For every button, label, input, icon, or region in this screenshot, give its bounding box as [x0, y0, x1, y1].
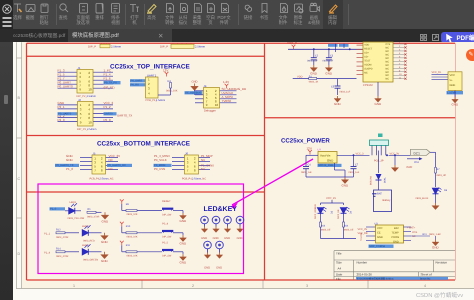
ground (LED2) — [101, 233, 109, 240]
label SOP_TP4056 (selected, U3) — [369, 245, 394, 248]
resistor R14 0603_UE — [343, 222, 354, 232]
svg-text:2014-05-26: 2014-05-26 — [357, 273, 373, 277]
svg-text:C2: C2 — [315, 55, 319, 58]
svg-text:0603_1uF: 0603_1uF — [340, 91, 351, 94]
svg-text:P2_1: P2_1 — [58, 105, 65, 109]
wire LED cathode rail — [321, 232, 357, 239]
svg-text:2CA: 2CA — [414, 161, 419, 164]
resistor R11b 0603_1-8K — [411, 233, 441, 236]
svg-text:GND: GND — [224, 237, 230, 240]
wire VCC_D connector pins — [432, 74, 449, 79]
svg-text:P0_TX_P0: P0_TX_P0 — [104, 82, 117, 85]
svg-text:C5: C5 — [331, 86, 335, 89]
svg-text:D4: D4 — [350, 210, 353, 214]
svg-text:2.54mm: 2.54mm — [87, 128, 96, 131]
net labels J2 right (VCC_3..) — [104, 101, 133, 122]
net label P1_0 (selected) + LED1 label — [50, 201, 77, 211]
net labels J2 left (GND,P2_1..) — [58, 101, 78, 122]
LED1 yellow — [65, 203, 85, 220]
svg-text:Debugger: Debugger — [204, 110, 216, 113]
regulator U2 (Vout/Vin) — [306, 149, 370, 164]
net labels J5 left — [55, 154, 79, 171]
svg-text:GND: GND — [192, 81, 198, 84]
svg-text:VCC_3: VCC_3 — [287, 41, 297, 45]
svg-text:P2_0: P2_0 — [58, 118, 65, 122]
net labels U3 right (BAT+...) — [407, 227, 417, 239]
svg-text:B: B — [18, 96, 21, 100]
svg-text:PWR: PWR — [407, 166, 413, 169]
svg-text:0603_10K: 0603_10K — [166, 90, 178, 93]
svg-text:Battery: Battery — [383, 199, 392, 202]
svg-text:P1_6: P1_6 — [104, 77, 111, 81]
svg-text:GND: GND — [180, 260, 188, 264]
wire J1 left pins — [58, 72, 78, 88]
svg-text:GND: GND — [201, 237, 207, 240]
svg-text:C: C — [18, 177, 21, 181]
svg-text:Title: Title — [336, 252, 342, 256]
wire J5 left pins — [80, 158, 92, 170]
ground (LED1) — [101, 212, 109, 219]
ground (K2) — [213, 227, 220, 240]
label DIP_P2_2.54mm (J2) — [77, 128, 96, 131]
svg-text:NC: NC — [364, 71, 368, 74]
wire J6 left pins — [172, 158, 185, 170]
svg-text:P1_0: P1_0 — [50, 208, 57, 211]
svg-text:10: 10 — [88, 120, 92, 124]
svg-text:DIP_P: DIP_P — [160, 45, 168, 49]
ground (K4) — [237, 227, 244, 240]
svg-text:VCC: VCC — [377, 227, 383, 230]
svg-text:File: File — [336, 277, 341, 281]
svg-text:CC25xx_BOTTOM_INTERFACE: CC25xx_BOTTOM_INTERFACE — [97, 141, 190, 148]
net labels Debugger right — [222, 87, 248, 103]
LED2 red — [82, 225, 102, 242]
LED3 green — [82, 244, 102, 261]
svg-text:GND: GND — [342, 184, 350, 188]
wire Debugger left pins — [195, 91, 204, 103]
svg-text:P0_0: P0_0 — [104, 118, 111, 122]
net labels J5 right — [107, 154, 132, 171]
svg-text:UD+: UD+ — [364, 51, 369, 54]
ground (K3) — [224, 227, 231, 240]
connector fragment (cut at top of view) — [88, 44, 122, 48]
switch SW1 (power switch, teal) — [370, 134, 389, 156]
svg-text:P0_SCLK: P0_SCLK — [154, 158, 167, 162]
svg-text:0603_GREEN: 0603_GREEN — [83, 258, 98, 261]
svg-text:R10: R10 — [126, 225, 131, 228]
ground (U3) — [432, 236, 440, 250]
connector J5 — [92, 151, 106, 174]
svg-text:VCC_DL: VCC_DL — [432, 71, 442, 74]
svg-text:C7: C7 — [355, 164, 359, 167]
svg-text:R9: R9 — [126, 203, 130, 206]
resistor R11 + key S3 (P0_5) — [120, 241, 183, 258]
capacitor C7 0603_1uF — [345, 154, 360, 177]
svg-text:_NC: _NC — [200, 178, 206, 181]
svg-text:P0_CSN: P0_CSN — [154, 167, 165, 171]
svg-text:GND: GND — [101, 240, 109, 244]
svg-text:2: 2 — [192, 284, 194, 288]
svg-text:0603_470R: 0603_470R — [56, 255, 69, 258]
net label Debugger left (selected) — [185, 91, 203, 94]
ground (S3) — [180, 254, 187, 260]
svg-text:12V: 12V — [307, 146, 312, 150]
label DIP_P2_2.54mm (J1) — [77, 95, 96, 98]
net labels VCC_3V / VCC_DE — [358, 228, 368, 235]
svg-text:P0_UART0: P0_UART0 — [58, 113, 72, 116]
svg-text:DC1: DC1 — [414, 152, 421, 156]
svg-text:0603_1K: 0603_1K — [309, 80, 319, 83]
ground (D6) — [432, 203, 439, 210]
svg-text:0603_UE: 0603_UE — [344, 228, 354, 231]
svg-text:NC: NC — [201, 158, 205, 162]
wire U1 left pins — [357, 45, 364, 74]
svg-text:GND: GND — [452, 103, 460, 107]
ground (K1) — [201, 227, 208, 240]
wire J6 right pins — [198, 158, 210, 170]
section divider lines (red sheet partition) — [27, 43, 456, 280]
svg-text:P1_1: P1_1 — [44, 232, 51, 235]
net labels J6 left — [154, 154, 172, 171]
svg-text:GND: GND — [432, 246, 440, 250]
svg-text:0603_GREEN: 0603_GREEN — [314, 204, 317, 219]
svg-text:GND: GND — [180, 219, 188, 223]
key pad K6 — [216, 241, 224, 252]
svg-text:D: D — [18, 252, 21, 256]
wire J2 right pins — [93, 105, 113, 122]
svg-text:UART0: UART0 — [104, 113, 113, 116]
svg-text:LED1: LED1 — [70, 201, 77, 204]
svg-text:LED&KEY: LED&KEY — [204, 206, 238, 213]
svg-text:DIP_SW: DIP_SW — [162, 213, 172, 216]
svg-text:TEST: TEST — [364, 59, 371, 62]
svg-text:PCB_3P: PCB_3P — [374, 160, 384, 163]
svg-text:GND: GND — [101, 259, 109, 263]
label SOT23 (selected, U2) — [318, 164, 342, 167]
svg-text:P0_5: P0_5 — [162, 241, 169, 244]
net labels J1 left (P1_3..P0_UART) — [58, 69, 73, 89]
wire rail to R7 — [430, 151, 436, 153]
svg-text:PROG: PROG — [392, 236, 400, 239]
resistor R7 0603_UE — [435, 155, 447, 187]
wire U3 right pins — [404, 227, 412, 241]
net labels J1 right — [104, 69, 112, 81]
svg-text:0603_470R: 0603_470R — [87, 215, 100, 218]
net labels USB_D+/USB_D- (selected, cut at top) — [328, 44, 338, 47]
key pad K3 — [224, 216, 232, 226]
capacitor C5 0603_1uF — [331, 79, 351, 95]
svg-text:GND: GND — [216, 267, 222, 270]
svg-text:P1_2: P1_2 — [104, 105, 111, 109]
svg-text:0603_YELLOW: 0603_YELLOW — [68, 217, 85, 220]
connector J2 — [78, 98, 94, 126]
svg-text:1.2V: 1.2V — [223, 80, 229, 84]
svg-text:GND: GND — [334, 102, 342, 106]
svg-text:VCC_3: VCC_3 — [356, 152, 365, 155]
svg-text:0603_10K: 0603_10K — [127, 254, 138, 257]
svg-text:0603_RED: 0603_RED — [83, 239, 95, 242]
svg-text:GND: GND — [327, 159, 333, 163]
key pad K4 — [236, 216, 244, 226]
battery BT1 — [372, 190, 392, 212]
LED D6 (0603_BLUE) — [416, 188, 448, 204]
IC U3 TP4056 — [375, 222, 404, 243]
connector J1 — [77, 66, 93, 93]
svg-text:P0_UART: P0_UART — [131, 80, 143, 83]
svg-text:Number: Number — [357, 261, 368, 265]
svg-text:Sheet of: Sheet of — [421, 273, 432, 277]
svg-text:GND: GND — [450, 84, 456, 87]
net labels UART left (selected) — [130, 79, 146, 82]
wire VCC rail to U1 — [288, 48, 363, 50]
connector P2 (VCC/GND header) — [448, 72, 462, 91]
svg-text:RESET: RESET — [364, 47, 373, 50]
annotation box LED&KEY (magenta markup) — [38, 184, 244, 274]
title block — [334, 251, 455, 280]
svg-text:P1_6: P1_6 — [66, 167, 73, 171]
svg-text:GND: GND — [180, 241, 188, 245]
svg-text:RESET: RESET — [162, 200, 171, 203]
IC U1 CP2102 — [363, 42, 393, 82]
svg-text:CC25xx_TOP_INTERFACE: CC25xx_TOP_INTERFACE — [110, 64, 191, 71]
svg-text:0603_10K: 0603_10K — [127, 235, 138, 238]
resistor R10 + key S2 (P0_4) — [120, 222, 183, 239]
svg-text:SC_UDEBUG: SC_UDEBUG — [185, 92, 201, 95]
svg-text:SUSPD: SUSPD — [364, 67, 373, 70]
wire DC aux + label 2CA — [407, 157, 423, 164]
label PCB_P4_2.54mm_NC (J6) — [182, 178, 206, 181]
net labels J6 right — [201, 154, 214, 171]
connector J6 — [185, 151, 199, 174]
svg-text:B5819W: B5819W — [370, 175, 373, 185]
ground (P2) — [452, 91, 460, 107]
capacitor C2 0603_1uF — [307, 49, 319, 65]
ground (C3) — [325, 65, 332, 72]
capacitor C3 0603_1uF — [323, 49, 334, 65]
svg-text:0603_UE: 0603_UE — [321, 228, 331, 231]
svg-text:R14: R14 — [344, 225, 349, 228]
net label P1_4 + resistor R14b — [44, 248, 79, 258]
svg-text:2.54mm: 2.54mm — [111, 45, 122, 49]
resistor R9 + key S1 (RESET) — [120, 199, 183, 216]
svg-text:UD-: UD- — [364, 55, 368, 58]
svg-text:2.54mm: 2.54mm — [87, 95, 96, 98]
svg-text:GND: GND — [325, 72, 333, 76]
svg-text:3: 3 — [306, 284, 308, 288]
svg-text:0603_1uF: 0603_1uF — [301, 171, 312, 174]
svg-text:+ BAT+: + BAT+ — [407, 227, 416, 230]
wire J2 left pins — [58, 105, 78, 122]
wire U1 right pins (no-connects) — [393, 44, 405, 79]
power flag 1.2V (Debugger) — [225, 84, 229, 89]
svg-text:D3: D3 — [331, 210, 334, 214]
svg-text:1: 1 — [73, 284, 75, 288]
wire J5 right pins — [106, 158, 119, 170]
svg-text:C3: C3 — [330, 55, 334, 58]
svg-text:VCOM: VCOM — [364, 63, 371, 66]
svg-text:GND: GND — [204, 267, 210, 270]
label (selected) under P2 — [447, 91, 464, 94]
svg-text:P0_UART0: P0_UART0 — [58, 85, 73, 89]
svg-text:E:\CC2530\模块底板原理图.SchDoc: E:\CC2530\模块底板原理图.SchDoc — [357, 277, 394, 280]
svg-text:VCC: VCC — [450, 74, 456, 77]
ground (K5) — [204, 253, 211, 270]
connector J4 Debugger — [204, 84, 220, 108]
svg-text:GND: GND — [213, 237, 219, 240]
svg-text:R11: R11 — [423, 233, 428, 236]
port DC1 — [411, 149, 431, 155]
power flag VCC (UART) — [165, 72, 169, 77]
ground (regulator) — [335, 163, 350, 188]
wire J1 right pins — [93, 72, 113, 88]
svg-text:CE: CE — [377, 232, 381, 235]
ground (S2) — [180, 235, 187, 241]
svg-text:D5KL: D5KL — [384, 177, 387, 183]
LED D4 (0603_GREEN) — [314, 204, 334, 222]
svg-text:DIP_SW: DIP_SW — [162, 255, 172, 258]
ground (C2) — [310, 65, 317, 72]
capacitor C4 0603_1uF — [301, 155, 345, 177]
resistor R4 0603_10K — [158, 80, 178, 95]
wire USB data lines — [335, 44, 344, 52]
power flag VCC_3V (LED feed) — [321, 197, 344, 205]
net label VDD + resistor R1b — [293, 76, 357, 84]
svg-text:U?: U? — [318, 149, 322, 152]
svg-text:P0_4: P0_4 — [162, 222, 169, 225]
svg-text:0603_1-8K: 0603_1-8K — [429, 233, 441, 236]
svg-text:R11: R11 — [126, 244, 131, 247]
ground (S1) — [180, 213, 187, 219]
label PCB_P4_2.54mm_NC (J5) — [90, 178, 114, 181]
svg-text:Size: Size — [336, 261, 342, 265]
svg-text:SOT23_R111: SOT23_R111 — [318, 164, 334, 167]
svg-text:Vout Vin: Vout Vin — [320, 154, 331, 158]
svg-text:TCVCM: TCVCM — [360, 233, 363, 241]
svg-text:Drawn By:: Drawn By: — [420, 277, 431, 280]
svg-text:VCC_3V: VCC_3V — [326, 197, 336, 200]
resistor R1 0603_470R — [87, 208, 102, 218]
svg-text:VCC_3V: VCC_3V — [358, 228, 368, 231]
svg-text:Revision: Revision — [436, 261, 448, 265]
svg-text:VDD: VDD — [364, 43, 369, 46]
net label P1_1 + resistor R12 — [44, 229, 79, 239]
key pad K5 — [204, 241, 212, 252]
svg-text:2.54mm: 2.54mm — [195, 45, 206, 49]
svg-text:DIP_SW: DIP_SW — [162, 236, 172, 239]
svg-text:0603_470R: 0603_470R — [56, 236, 69, 239]
ground (LED3) — [101, 252, 109, 259]
net label P0_TX (selected) — [104, 81, 121, 84]
svg-text:+ BAT: + BAT — [375, 192, 382, 195]
svg-text:P0_RX: P0_RX — [131, 84, 139, 87]
power flag VCC_3 (CP2102) — [292, 45, 296, 50]
ground (UART pulldown) — [191, 81, 199, 95]
svg-text:NC: NC — [386, 78, 390, 81]
svg-text:(P0_P1): (P0_P1) — [104, 86, 115, 90]
svg-text:NC: NC — [412, 235, 416, 238]
wire main 3V rail — [356, 152, 411, 156]
svg-text:NC: NC — [201, 167, 205, 171]
svg-text:0603_UE: 0603_UE — [437, 174, 447, 177]
svg-text:5+: 5+ — [450, 79, 453, 82]
svg-text:R1: R1 — [88, 208, 92, 211]
pin numbers U1 right — [399, 42, 402, 80]
svg-text:GND: GND — [375, 102, 383, 106]
svg-text:R12: R12 — [56, 229, 61, 232]
svg-text:0603_BLUE: 0603_BLUE — [416, 197, 429, 200]
connector J3 UART — [146, 73, 159, 98]
svg-text:0603_1uF: 0603_1uF — [349, 171, 360, 174]
ground (DC input) — [391, 154, 398, 171]
svg-text:DIP_P: DIP_P — [88, 45, 96, 49]
ground (C5) — [334, 96, 341, 102]
svg-text:SOP_TP4056: SOP_TP4056 — [369, 245, 386, 248]
svg-text:GND: GND — [66, 158, 74, 162]
svg-text:A4: A4 — [338, 267, 342, 271]
wire U3 left pins — [366, 227, 376, 241]
ground (U1) — [375, 82, 383, 106]
svg-text:GND: GND — [393, 241, 399, 244]
svg-text:10: 10 — [88, 87, 92, 91]
wire Debugger right pins — [220, 91, 237, 103]
annotation arrow (magenta callout line) — [231, 159, 314, 209]
svg-text:C4: C4 — [308, 164, 312, 167]
diode D3 B5819W — [370, 151, 387, 191]
svg-text:12V: 12V — [163, 68, 168, 72]
svg-text:BAT: BAT — [394, 227, 399, 230]
pin stubs (cut component A) — [102, 43, 192, 46]
connector fragment 2 (cut at top of view) — [160, 44, 206, 48]
key pad K2 — [212, 216, 220, 226]
resistor R13 0603_UE — [320, 222, 331, 232]
svg-text:TEMP: TEMP — [392, 232, 399, 235]
svg-text:R13: R13 — [321, 225, 326, 228]
svg-text:0603_UE: 0603_UE — [337, 209, 340, 219]
svg-text:UART0_TX: UART0_TX — [117, 113, 132, 117]
svg-text:TVBS0: TVBS0 — [222, 99, 232, 103]
svg-text:_NC: _NC — [108, 178, 114, 181]
svg-text:D6: D6 — [444, 189, 448, 192]
svg-text:OTG: OTG — [412, 231, 417, 234]
sheet right border (faint) — [455, 43, 457, 280]
power flag 12V (regulator input) — [308, 150, 312, 155]
wire UART left pins — [146, 81, 149, 85]
key pad K1 — [201, 216, 209, 226]
file path (selected) — [356, 277, 448, 280]
svg-text:GND: GND — [377, 236, 383, 239]
svg-text:CP2102: CP2102 — [363, 84, 373, 87]
svg-text:2.54mm: 2.54mm — [100, 178, 109, 181]
svg-text:2.54mm: 2.54mm — [192, 178, 201, 181]
svg-text:0603_1uF: 0603_1uF — [307, 59, 318, 62]
svg-text:CC25xx_POWER: CC25xx_POWER — [281, 138, 330, 145]
ground (K6) — [216, 253, 223, 270]
LED D5 (0603_UE) — [337, 207, 353, 222]
svg-text:GND: GND — [237, 237, 243, 240]
svg-text:R14: R14 — [56, 248, 61, 251]
svg-text:R7: R7 — [437, 168, 441, 171]
svg-text:P1_4: P1_4 — [44, 251, 51, 254]
svg-text:0603_10K: 0603_10K — [127, 213, 138, 216]
svg-text:0603_1uF: 0603_1uF — [323, 59, 334, 62]
svg-text:2.54mm: 2.54mm — [156, 99, 165, 102]
label PCB_P1_2.54mm (J3) — [146, 99, 166, 102]
svg-text:4: 4 — [424, 284, 426, 288]
svg-text:GND: GND — [102, 220, 110, 224]
svg-text:10: 10 — [215, 103, 219, 107]
